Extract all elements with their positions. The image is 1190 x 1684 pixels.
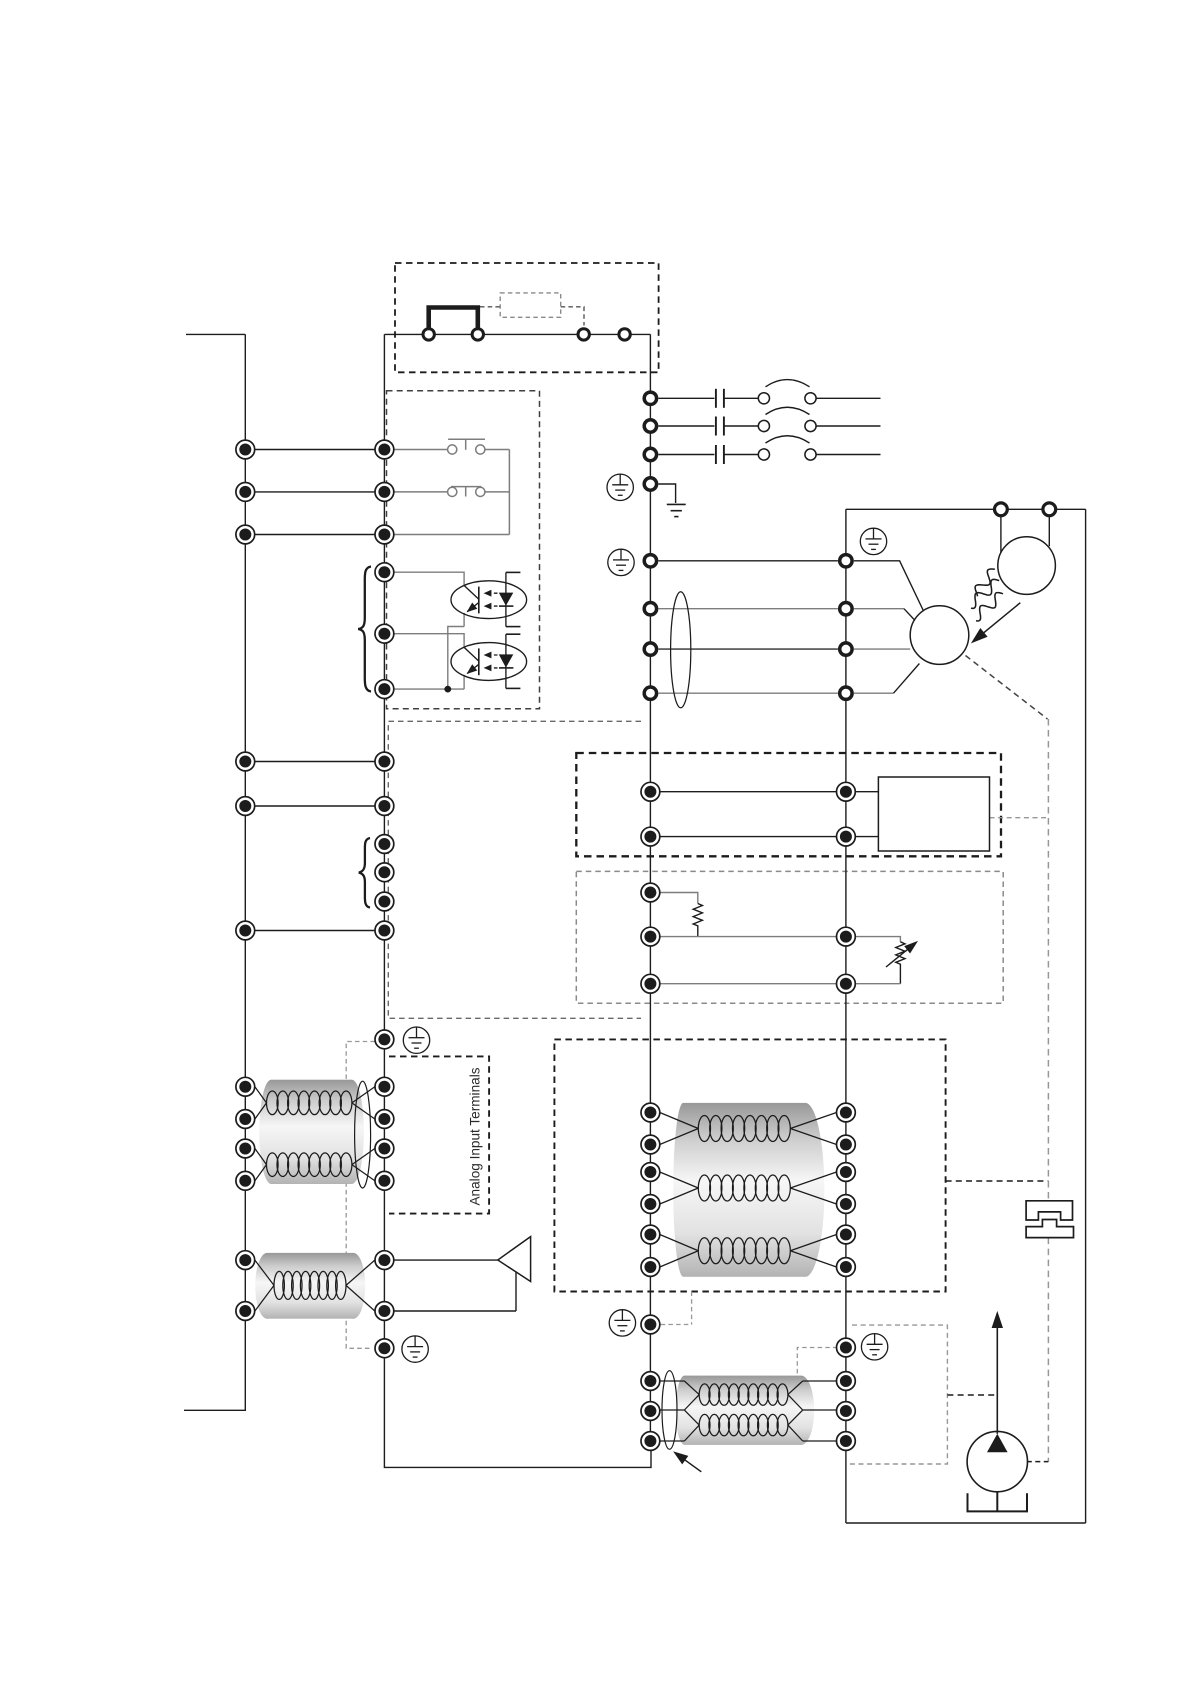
terminal U/V/W right y=608.7 (840, 603, 852, 615)
terminal R/S/T phase 2 (644, 420, 656, 432)
terminal analog bus1 y=1180.8 (236, 1171, 255, 1190)
terminal cluster y=901.5 (375, 892, 394, 911)
terminal comm right y=1234.5 (837, 1225, 856, 1244)
wire: input phase 3 (658, 454, 714, 456)
terminal cluster y=872.3 (375, 863, 394, 882)
terminal relay right y=791.7 (837, 782, 856, 801)
relay load box (878, 777, 989, 851)
terminal comm right y=1112.5 (837, 1103, 856, 1122)
braid comm 1172 (698, 1175, 790, 1201)
MCCB contact phase 3 (715, 445, 717, 464)
terminal rs485 left y=1381 (641, 1372, 660, 1391)
wire: relay row 2 (658, 836, 878, 838)
terminal analog bus1 y=1148.5 (236, 1139, 255, 1158)
wire: bottom frame (846, 1522, 1086, 1524)
resistor (internal) (693, 904, 702, 937)
ground symbol pulse (402, 1336, 428, 1362)
wire: power input stub bottom (184, 1409, 245, 1411)
arrow pointing to shield (679, 1455, 702, 1472)
wire: bus 1 (left terminal rail) (244, 334, 246, 1411)
terminal pulse bus1 y=1311 (236, 1302, 255, 1321)
terminal relay right y=836.6 (837, 827, 856, 846)
heat waves (975, 569, 995, 596)
wire: row y=806 (245, 805, 384, 807)
dashed link option-to-terminal (561, 307, 584, 326)
terminal pulse bus1 y=1260.1 (236, 1251, 255, 1270)
terminal opto y=633.7 (375, 624, 394, 643)
twisted pair pulse (255, 1260, 375, 1311)
dashed drain: motor shield to braking unit / meter (966, 656, 1048, 720)
terminal bus1 y=534.5 (236, 525, 255, 544)
cooling fan (998, 537, 1056, 595)
wire: rs485 stubs (660, 1381, 837, 1441)
terminal opto y=572.2 (375, 563, 394, 582)
wire: bus 4 (inverter right rail) (845, 509, 847, 1523)
ground symbol rs485 (861, 1334, 887, 1360)
terminal rs485 right y=1411 (837, 1402, 856, 1421)
wire: digital input row y=491.9 (245, 491, 384, 493)
terminal analog shield ground (375, 1030, 394, 1049)
terminal rs485 shield ground (837, 1338, 856, 1357)
dashed option-reactor rectangle (500, 293, 561, 317)
terminal opto y=689.1 (375, 680, 394, 699)
braid analog 1148.5 (267, 1153, 352, 1177)
terminal B1 (578, 329, 589, 340)
wire: input phase 1 (658, 397, 714, 399)
terminal comm left y=1144.5 (641, 1135, 660, 1154)
terminal U/V/W right y=693.2 (840, 687, 852, 699)
wire: motor phase row middle (658, 648, 838, 650)
frequency meter (967, 1431, 1027, 1491)
braid rs485 1381 (699, 1384, 788, 1405)
terminal bus2 y=449.5 (375, 440, 394, 459)
terminal bus2 y=534.5 (375, 525, 394, 544)
wire: freq +V row (658, 893, 697, 904)
terminal pulse bus2 y=1311 (375, 1302, 394, 1321)
opto-coupler PC1 (451, 572, 527, 626)
svg-text:Analog Input Terminals: Analog Input Terminals (468, 1067, 483, 1205)
terminal comm left y=1172 (641, 1163, 660, 1182)
wire: opto input 1 (394, 572, 464, 585)
ground symbol analog (403, 1027, 429, 1053)
shield ellipse rs485 (662, 1371, 677, 1450)
terminal bus2 y=491.9 (375, 483, 394, 502)
dashed link: pulse box to meter line (947, 1394, 996, 1396)
terminal analog bus2 y=1180.8 (375, 1171, 394, 1190)
wire: relay row 1 (658, 791, 878, 793)
wire: motor phase row y=608.7 (658, 608, 838, 610)
terminal bus1 y=806 (236, 797, 255, 816)
shield ellipse analog (355, 1081, 371, 1188)
terminal bus2 y=930 (375, 921, 394, 940)
meter needle line (996, 1327, 998, 1434)
terminal analog bus2 y=1086.7 (375, 1077, 394, 1096)
wire: freq wiper row (658, 936, 846, 938)
dashed link: comm box to braking line (946, 1180, 1049, 1182)
terminal analog bus1 y=1119 (236, 1110, 255, 1129)
twisted pair comm 1172 (660, 1172, 837, 1204)
terminal comm right y=1204 (837, 1195, 856, 1214)
dashed box: analog input terminals (389, 1056, 489, 1213)
fan terminal 2 (1043, 503, 1056, 516)
twisted pair rs485 1410 (684, 1410, 802, 1441)
braid comm 1112.5 (698, 1116, 790, 1142)
junction dot common (444, 686, 451, 693)
terminal relay left y=836.6 (641, 827, 660, 846)
MCCB contact phase 1 (715, 389, 717, 408)
shield cylinder pulse (255, 1253, 365, 1319)
terminal bus2 y=806 (375, 797, 394, 816)
twisted pair comm 1234.5 (660, 1235, 837, 1268)
terminal rs485 right y=1381 (837, 1372, 856, 1391)
dashed drain: analog shield to ground terminal (346, 1042, 375, 1349)
wire: opto input 2 (394, 634, 464, 648)
wire: input phase 2 (658, 425, 714, 427)
wire: digital input row y=449.5 (245, 449, 384, 451)
wire: motor phase row y=693.2 (658, 692, 838, 694)
pot arrow (886, 945, 913, 967)
wire: motor ground row (658, 560, 838, 562)
airflow arrow (978, 603, 1021, 638)
wire: row y=930.5 (245, 930, 384, 932)
terminal B2 (619, 329, 630, 340)
terminal rs485 right y=1441 (837, 1432, 856, 1451)
twisted pair analog 1086.7 (255, 1087, 375, 1119)
ground symbol motor left (608, 549, 634, 575)
dashed drain: comm shield to ground terminal (661, 1292, 692, 1325)
terminal analog bus1 y=1086.7 (236, 1077, 255, 1096)
fan terminal 1 (995, 503, 1008, 516)
wire: pulse return (394, 1272, 516, 1311)
jumper bar (DC reactor short) (429, 308, 478, 328)
terminal input ground (644, 478, 656, 490)
twisted pair rs485 1381 (684, 1381, 802, 1410)
potentiometer (896, 942, 905, 984)
switch S2 (momentary) (394, 450, 510, 535)
braid analog 1086.7 (267, 1091, 352, 1115)
dashed wrapper: control terminal group (388, 721, 641, 1018)
MCCB contact phase 2 (715, 417, 717, 436)
wire: top frame to fan (846, 508, 1086, 510)
terminal U/V/W left y=649.1 (644, 643, 656, 655)
terminal comm shield ground (641, 1315, 660, 1334)
earth ground symbol (667, 504, 686, 516)
fan lead 1 (1000, 509, 1002, 552)
ground symbol at input (607, 474, 633, 500)
terminal freq right y=983.7 (837, 974, 856, 993)
amplifier (frequency meter driver) (498, 1237, 531, 1282)
brace for option terminals (359, 838, 370, 908)
terminal comm left y=1112.5 (641, 1103, 660, 1122)
wire: bus 2 (control rail) with bottom return (384, 334, 651, 1467)
terminal freq left y=983.7 (641, 974, 660, 993)
terminal +2 (472, 329, 483, 340)
braid comm 1234.5 (698, 1238, 790, 1264)
wire: input ground lead (658, 484, 675, 503)
shield cylinder rs485 (676, 1376, 815, 1445)
terminal comm left y=1267 (641, 1258, 660, 1277)
dashed drain: rs485 shield to ground terminal (797, 1348, 837, 1383)
wire: freq 0V row (658, 983, 846, 985)
terminal R/S/T phase 1 (644, 392, 656, 404)
terminal bus1 y=491.9 (236, 483, 255, 502)
twisted pair comm 1112.5 (660, 1113, 837, 1145)
fan lead 2 (1048, 509, 1050, 546)
ground symbol comm (609, 1310, 635, 1336)
dashed link jumper-to-option (480, 306, 500, 308)
terminal +1 (423, 329, 434, 340)
terminal rs485 left y=1411 (641, 1402, 660, 1421)
terminal bus2 y=761.5 (375, 752, 394, 771)
terminal rs485 left y=1441 (641, 1432, 660, 1451)
dashed box: digital input terminals (387, 391, 540, 709)
terminal bus1 y=930 (236, 921, 255, 940)
meter stand (968, 1493, 1028, 1511)
shield cylinder comm (673, 1103, 824, 1277)
terminal U/V/W right y=649.1 (840, 643, 852, 655)
ground symbol motor right (860, 528, 886, 554)
wire: right frame (1085, 509, 1087, 1523)
dashed box: DC reactor / option terminals (395, 263, 659, 372)
terminal analog bus2 y=1148.5 (375, 1139, 394, 1158)
dashed box: communication terminals (554, 1039, 945, 1291)
braid pulse (274, 1271, 346, 1299)
terminal R/S/T phase 3 (644, 448, 656, 460)
contactor phase 3 (758, 449, 769, 460)
brace for multi-function inputs (358, 567, 371, 692)
terminal U/V/W left y=608.7 (644, 603, 656, 615)
contactor phase 1 (758, 393, 769, 404)
wire: power input stub top (186, 333, 245, 335)
terminal freq left y=936.6 (641, 927, 660, 946)
terminal comm left y=1204 (641, 1195, 660, 1214)
dashed box: pulse monitor output (partial) (848, 1325, 948, 1464)
braking unit connector upper (1026, 1201, 1072, 1220)
terminal pulse bus2 y=1260.1 (375, 1251, 394, 1270)
terminal U/V/W right y=560.8 (840, 555, 852, 567)
dashed box: frequency setting terminals (576, 871, 1003, 1003)
terminal U/V/W left y=560.8 (644, 555, 656, 567)
switch S1 (maintained) (394, 439, 510, 454)
braking unit connector lower (1026, 1220, 1073, 1238)
terminal U/V/W left y=693.2 (644, 687, 656, 699)
terminal bus1 y=761.5 (236, 752, 255, 771)
contactor phase 2 (758, 420, 769, 431)
terminal comm right y=1144.5 (837, 1135, 856, 1154)
terminal pulse shield ground (375, 1339, 394, 1358)
terminal cluster y=844 (375, 835, 394, 854)
dashed link: relay box to braking line (990, 817, 1049, 819)
shield ellipse: motor cable (671, 592, 691, 708)
terminal analog bus2 y=1119 (375, 1110, 394, 1129)
terminal bus1 y=449.5 (236, 440, 255, 459)
wire: top jumper bus (384, 333, 650, 335)
dashed box: relay output terminals (576, 753, 1001, 856)
terminal relay left y=791.7 (641, 782, 660, 801)
wire: row y=761.5 (245, 761, 384, 763)
terminal comm right y=1172 (837, 1163, 856, 1182)
motor M (910, 606, 969, 665)
wire: opto common (394, 613, 464, 689)
wire: bus 3 (inverter left rail) (649, 334, 651, 1443)
terminal comm right y=1267 (837, 1258, 856, 1277)
shield cylinder analog (259, 1080, 364, 1184)
terminal +V (641, 883, 660, 902)
terminal freq right y=936.6 (837, 927, 856, 946)
braid rs485 1410 (699, 1414, 788, 1435)
terminal comm left y=1234.5 (641, 1225, 660, 1244)
twisted pair analog 1148.5 (255, 1149, 375, 1181)
wire: digital input common row (245, 534, 384, 536)
opto-coupler PC2 (451, 634, 527, 688)
wire: pulse signal (394, 1259, 498, 1261)
